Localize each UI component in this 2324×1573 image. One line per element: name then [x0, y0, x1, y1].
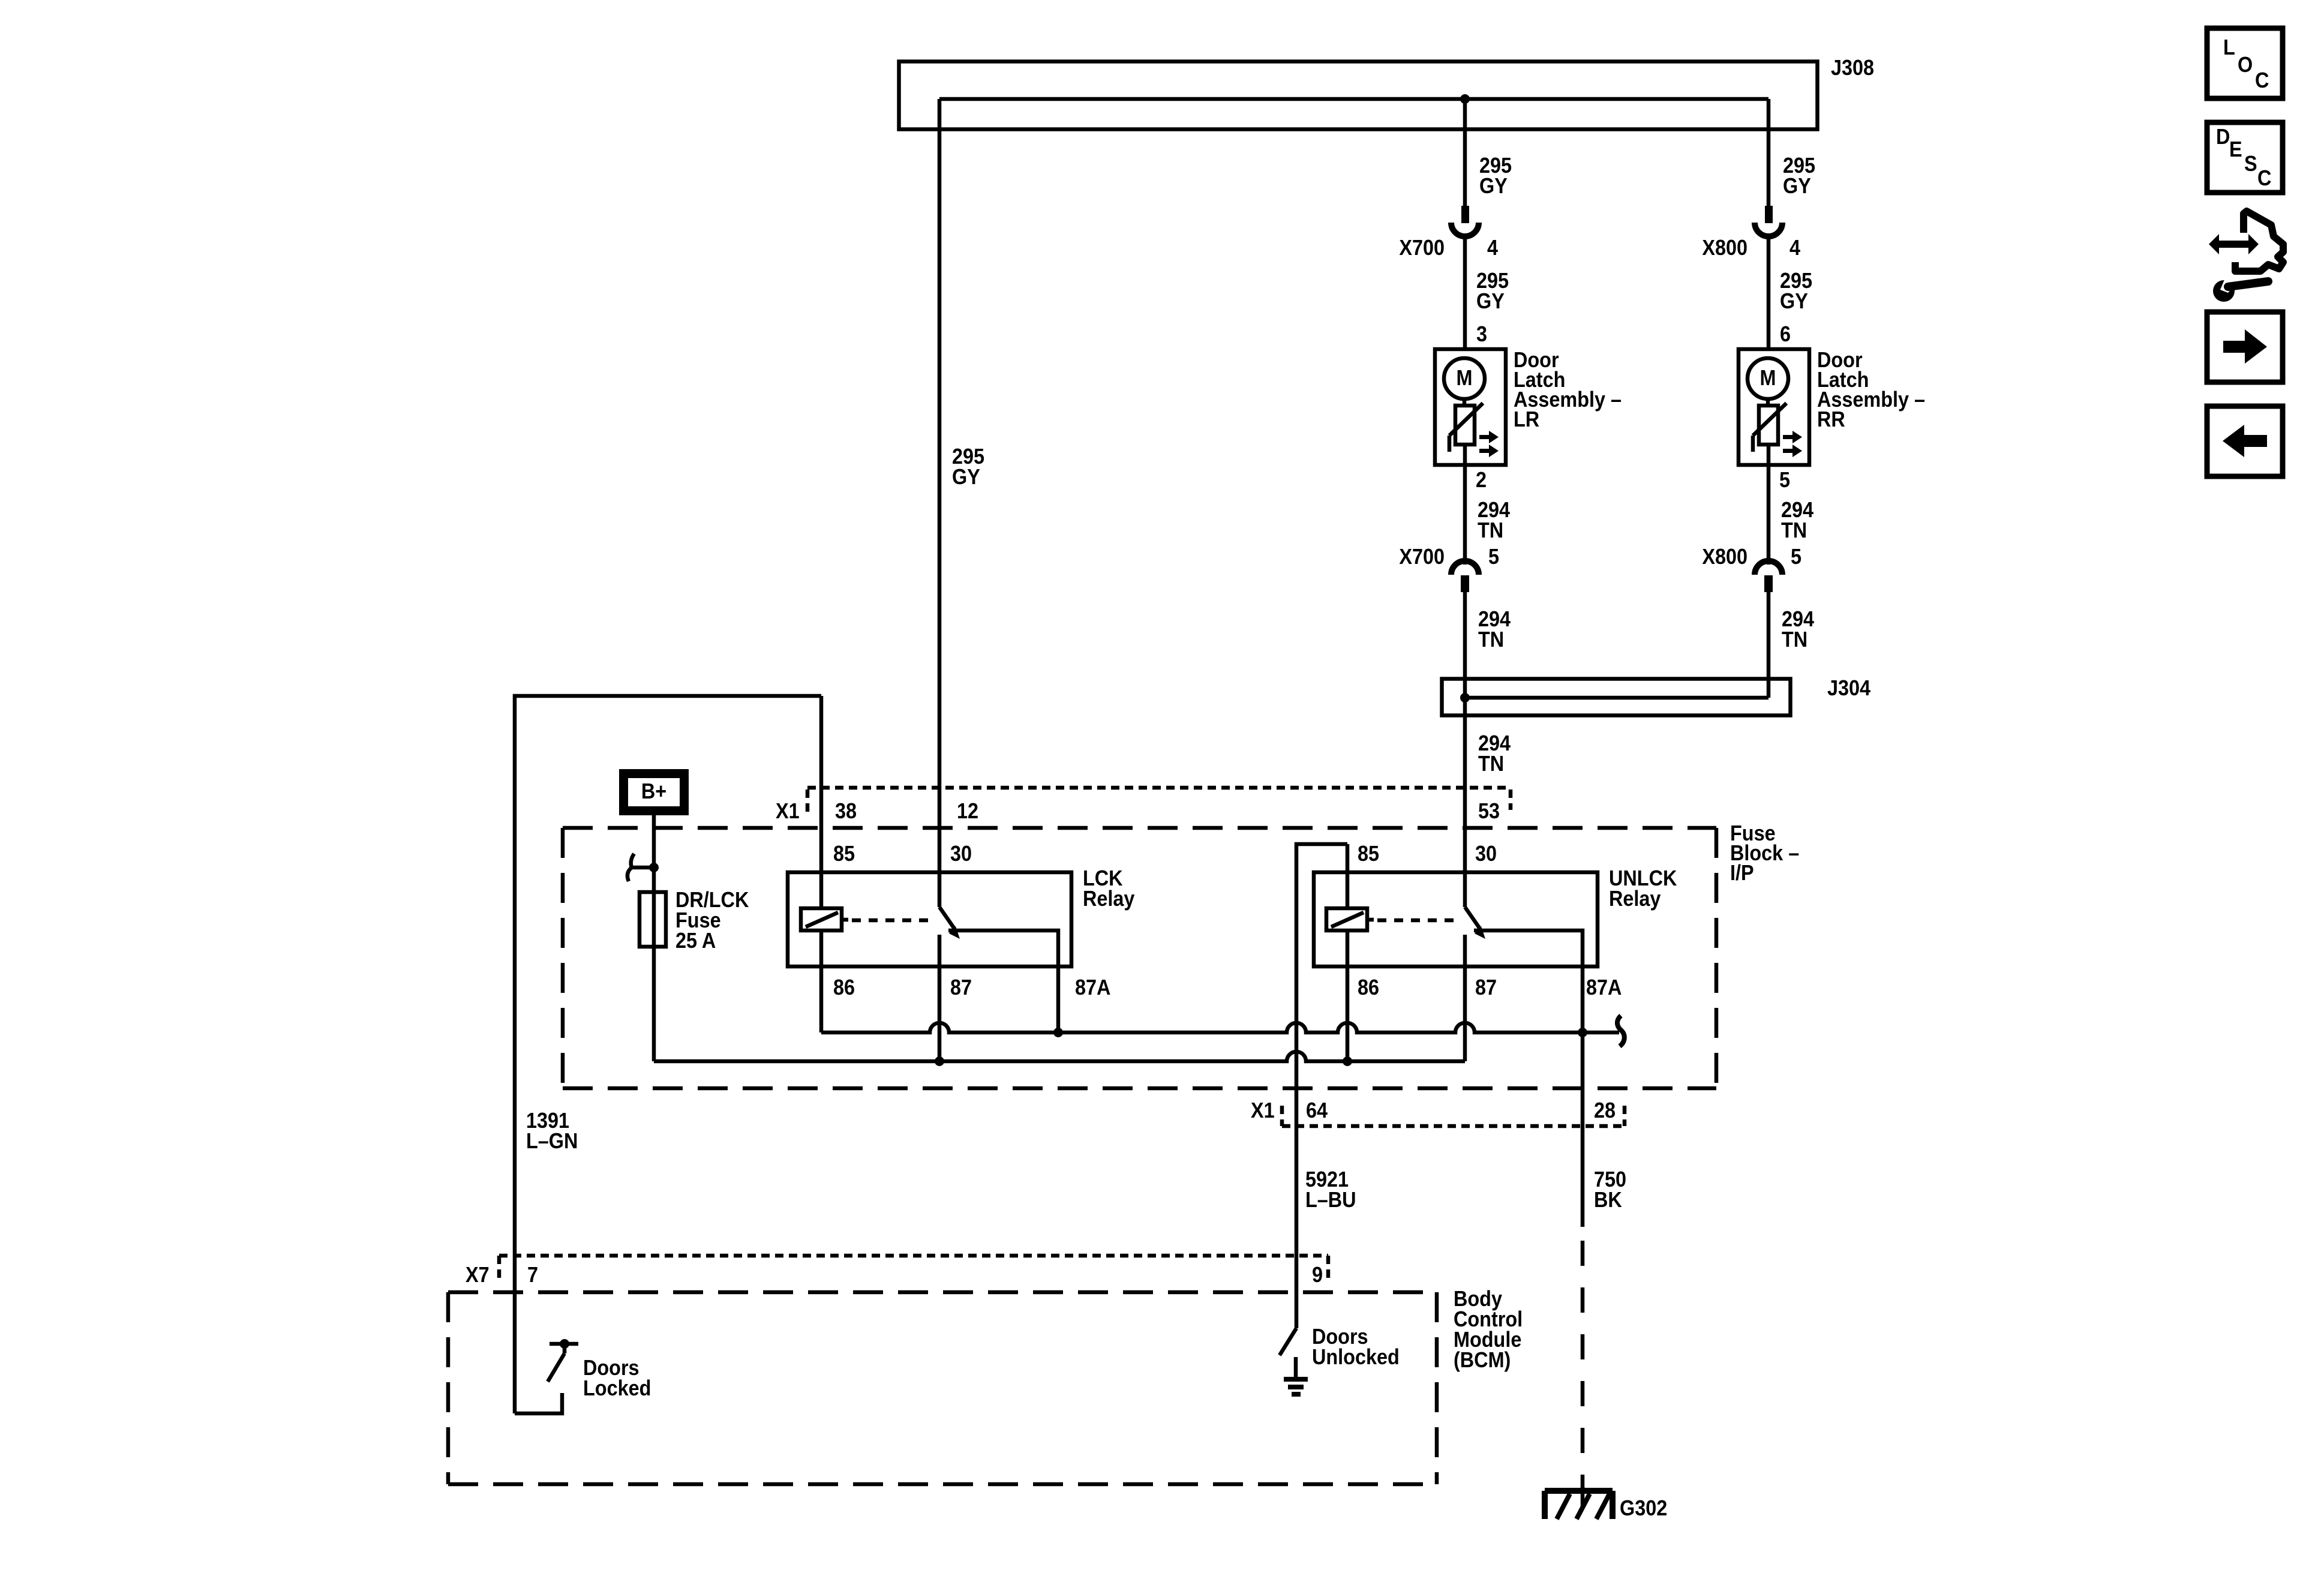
svg-text:X7: X7 — [466, 1263, 490, 1287]
svg-text:RR: RR — [1817, 407, 1845, 431]
svg-text:TN: TN — [1782, 628, 1807, 652]
svg-text:TN: TN — [1478, 628, 1504, 652]
svg-text:TN: TN — [1478, 518, 1503, 542]
svg-text:C: C — [2257, 166, 2271, 190]
svg-text:L–BU: L–BU — [1305, 1188, 1356, 1212]
svg-text:25 A: 25 A — [675, 929, 716, 953]
svg-text:87A: 87A — [1586, 975, 1622, 999]
svg-text:Locked: Locked — [583, 1376, 651, 1400]
svg-text:5: 5 — [1791, 545, 1801, 569]
svg-text:X1: X1 — [1251, 1098, 1275, 1122]
svg-text:GY: GY — [952, 465, 980, 489]
svg-text:B+: B+ — [641, 779, 666, 803]
svg-text:L–GN: L–GN — [526, 1129, 578, 1153]
svg-text:38: 38 — [835, 799, 857, 823]
svg-text:X800: X800 — [1702, 545, 1747, 569]
svg-text:X800: X800 — [1702, 236, 1747, 260]
svg-text:O: O — [2238, 53, 2253, 77]
svg-text:J308: J308 — [1831, 56, 1874, 80]
svg-text:30: 30 — [950, 842, 972, 866]
svg-text:S: S — [2244, 152, 2257, 176]
svg-text:6: 6 — [1780, 322, 1791, 346]
svg-text:GY: GY — [1783, 174, 1811, 198]
svg-text:87: 87 — [1475, 975, 1497, 999]
svg-text:GY: GY — [1476, 289, 1505, 313]
svg-text:2: 2 — [1476, 468, 1487, 492]
svg-text:87: 87 — [950, 975, 972, 999]
svg-text:12: 12 — [957, 799, 978, 823]
svg-text:85: 85 — [833, 842, 855, 866]
svg-text:87A: 87A — [1075, 975, 1110, 999]
svg-text:Unlocked: Unlocked — [1312, 1345, 1400, 1369]
svg-text:Relay: Relay — [1609, 887, 1661, 911]
svg-text:C: C — [2255, 68, 2269, 92]
svg-text:5: 5 — [1488, 545, 1499, 569]
svg-text:G302: G302 — [1620, 1496, 1667, 1520]
svg-text:X700: X700 — [1399, 236, 1445, 260]
svg-text:L: L — [2223, 35, 2235, 59]
svg-text:I/P: I/P — [1730, 861, 1754, 885]
svg-text:M: M — [1457, 366, 1473, 390]
svg-text:9: 9 — [1312, 1263, 1323, 1287]
svg-text:D: D — [2216, 125, 2230, 149]
svg-text:4: 4 — [1789, 236, 1800, 260]
svg-text:TN: TN — [1478, 752, 1504, 776]
svg-text:30: 30 — [1475, 842, 1497, 866]
svg-text:86: 86 — [1358, 975, 1379, 999]
svg-text:7: 7 — [527, 1263, 538, 1287]
svg-text:3: 3 — [1476, 322, 1487, 346]
svg-text:GY: GY — [1780, 289, 1808, 313]
svg-text:Relay: Relay — [1083, 887, 1134, 911]
svg-text:J304: J304 — [1827, 676, 1870, 700]
svg-text:4: 4 — [1487, 236, 1498, 260]
svg-text:53: 53 — [1478, 799, 1500, 823]
svg-text:5: 5 — [1779, 468, 1790, 492]
svg-text:LR: LR — [1514, 407, 1539, 431]
svg-text:86: 86 — [833, 975, 855, 999]
svg-text:85: 85 — [1358, 842, 1379, 866]
svg-text:(BCM): (BCM) — [1454, 1348, 1511, 1372]
svg-text:X700: X700 — [1399, 545, 1445, 569]
svg-text:64: 64 — [1306, 1098, 1328, 1122]
svg-text:E: E — [2229, 137, 2242, 161]
svg-text:28: 28 — [1594, 1098, 1616, 1122]
svg-text:BK: BK — [1594, 1188, 1622, 1212]
svg-text:GY: GY — [1479, 174, 1508, 198]
svg-text:X1: X1 — [776, 799, 800, 823]
svg-text:M: M — [1760, 366, 1776, 390]
svg-text:TN: TN — [1781, 518, 1807, 542]
